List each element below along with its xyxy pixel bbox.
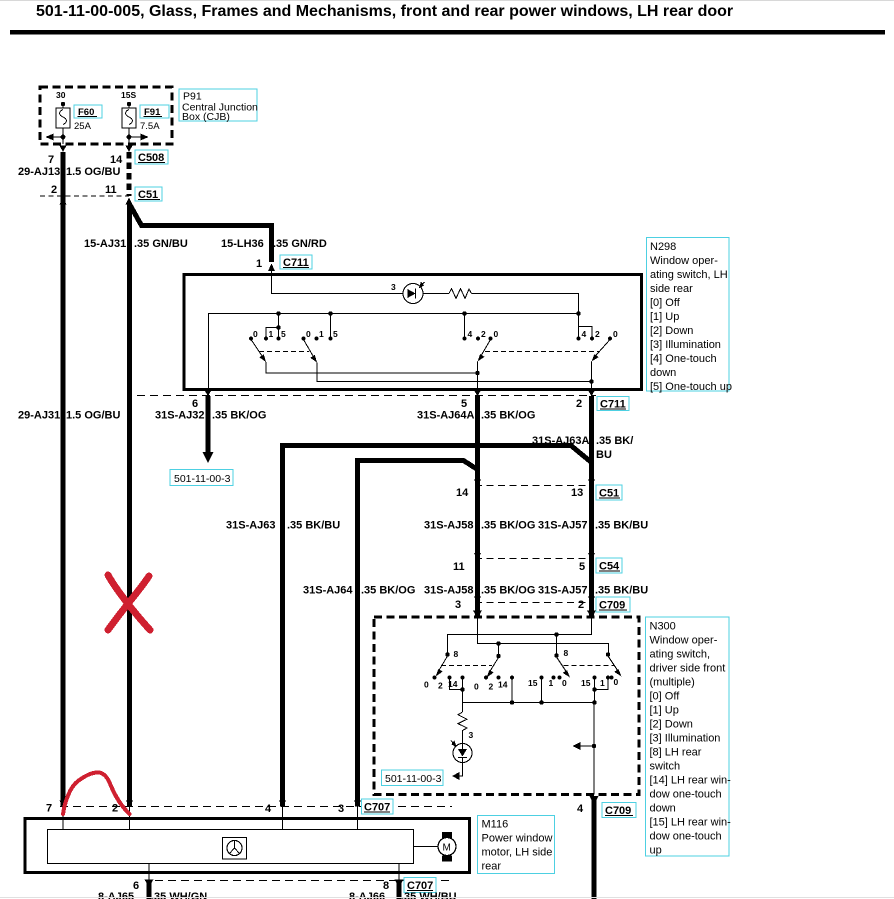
connector C51 arrows pins 14 13	[474, 480, 481, 487]
svg-text:1: 1	[319, 329, 324, 339]
wire 31S-AJ64 elbow branch	[358, 461, 478, 807]
N300 common bus	[463, 700, 597, 704]
svg-text:15S: 15S	[121, 90, 136, 100]
wire 31S-AJ63 elbow branch	[283, 446, 592, 807]
svg-text:3: 3	[469, 730, 474, 740]
fuse F91	[122, 102, 136, 144]
svg-text:1: 1	[549, 678, 554, 688]
connector C707 bottom dashed line	[155, 880, 450, 882]
motor M116 outer box	[25, 819, 470, 873]
svg-text:31S-AJ58: 31S-AJ58	[424, 520, 474, 532]
svg-text:31S-AJ57: 31S-AJ57	[538, 520, 588, 532]
motor symbol M	[414, 832, 457, 862]
connector C54 label box	[596, 558, 622, 573]
N300 switch C pivot 8	[554, 653, 558, 657]
junction box P91 dashed outline	[40, 87, 172, 144]
connector C709 label box bottom	[602, 803, 636, 818]
P91 info box	[179, 89, 258, 123]
wire motor pin 6	[145, 864, 154, 899]
svg-text:2: 2	[438, 681, 443, 691]
N300 linkage dashed right	[564, 665, 616, 667]
svg-text:11: 11	[453, 561, 465, 573]
N300 switch B wire 14 down	[511, 678, 513, 703]
svg-text:0: 0	[494, 329, 499, 339]
connector C508 arrow pin 14	[126, 146, 133, 153]
svg-text:.35 BK/OG: .35 BK/OG	[481, 520, 535, 532]
connector C51 mid dashed line	[475, 485, 593, 487]
N300 switch C wire 15 down	[541, 678, 543, 703]
svg-text:7: 7	[48, 154, 54, 166]
svg-text:Window oper-: Window oper-	[650, 635, 718, 647]
bottom frame line	[0, 897, 894, 899]
N298 switch 4 feed	[579, 314, 593, 339]
svg-text:[0] Off: [0] Off	[650, 297, 681, 309]
N298 linkage right dashed	[485, 351, 599, 353]
wire 31S-AJ32 to ground ref	[203, 396, 214, 463]
svg-text:7: 7	[46, 803, 52, 815]
connector C711 label box top	[280, 255, 312, 269]
N298 switch 3 contacts 4 2 0	[463, 329, 499, 340]
svg-text:dow one-touch: dow one-touch	[650, 831, 722, 843]
svg-text:5: 5	[281, 329, 286, 339]
connector C707 label box bottom	[404, 878, 436, 893]
wire segment F91 to C51 dashed thick	[127, 152, 132, 196]
wire motor pin 8	[395, 864, 404, 899]
top frame line	[0, 0, 894, 2]
svg-text:[3] Illumination: [3] Illumination	[650, 733, 721, 745]
wire 15-AJ31 long vertical	[127, 204, 132, 807]
N298 switch 4 arm	[592, 340, 611, 362]
svg-text:[4] One-touch: [4] One-touch	[650, 353, 717, 365]
svg-text:[1] Up: [1] Up	[650, 311, 679, 323]
svg-text:31S-AJ32: 31S-AJ32	[155, 410, 205, 422]
svg-text:down: down	[650, 803, 676, 815]
svg-text:2: 2	[578, 599, 584, 611]
svg-text:.35 GN/RD: .35 GN/RD	[273, 238, 327, 250]
N298 switch 2 pivot wire	[317, 363, 592, 382]
svg-text:.35 BK/BU: .35 BK/BU	[595, 585, 648, 597]
svg-text:motor, LH side: motor, LH side	[482, 847, 553, 859]
connector C709 dashed line	[475, 602, 593, 604]
svg-text:501-11-00-3: 501-11-00-3	[385, 773, 442, 785]
svg-text:0: 0	[613, 329, 618, 339]
svg-text:13: 13	[571, 487, 583, 499]
N300 lamp output wire to ref arrow	[452, 763, 463, 781]
svg-text:7.5A: 7.5A	[140, 121, 160, 132]
svg-text:ating switch, LH: ating switch, LH	[650, 269, 728, 281]
svg-text:.35 BK/OG: .35 BK/OG	[361, 585, 415, 597]
svg-text:29-AJ13: 29-AJ13	[18, 166, 60, 178]
N298 switch 3 feed	[464, 314, 466, 339]
fuse F91 output junction and feed arrow	[127, 134, 149, 141]
N298 lamp (LED)	[403, 282, 425, 304]
wire resistor to bus	[472, 294, 579, 314]
svg-text:4: 4	[577, 803, 584, 815]
wire bus to pin 6	[208, 314, 210, 390]
svg-text:[14] LH rear win-: [14] LH rear win-	[650, 775, 732, 787]
N300 switch A contact bracket	[450, 678, 465, 703]
svg-text:1.5 OG/BU: 1.5 OG/BU	[66, 166, 120, 178]
N298 switch 2 feed	[330, 314, 332, 339]
fuse F60 designator box	[74, 105, 102, 118]
switch N300 dashed outline	[374, 617, 639, 795]
svg-text:[5] One-touch up: [5] One-touch up	[650, 381, 732, 393]
svg-text:4: 4	[582, 329, 587, 339]
N300 pin3 internal wire	[478, 617, 609, 655]
svg-text:0: 0	[562, 678, 567, 688]
N298 switch 3 pivot wire to pin 5	[477, 362, 479, 390]
svg-text:2: 2	[51, 184, 57, 196]
svg-text:rear: rear	[482, 861, 502, 873]
connector C707 top dashed line	[60, 806, 452, 808]
svg-text:[15] LH rear win-: [15] LH rear win-	[650, 817, 732, 829]
N300 switch A pivot 8	[445, 652, 449, 656]
svg-text:Box (CJB): Box (CJB)	[182, 111, 230, 123]
svg-text:31S-AJ64A: 31S-AJ64A	[417, 410, 475, 422]
svg-text:[8] LH rear: [8] LH rear	[650, 747, 702, 759]
connector C508 arrow pin 7	[60, 146, 67, 153]
svg-text:.35 BK/BU: .35 BK/BU	[287, 520, 340, 532]
svg-text:1.5 OG/BU: 1.5 OG/BU	[66, 410, 120, 422]
N300 switch A arm	[436, 656, 448, 677]
svg-text:[2] Down: [2] Down	[650, 719, 693, 731]
svg-text:6: 6	[192, 398, 198, 410]
connector C51 dashed line	[40, 195, 129, 197]
connector C711 bottom dashed line	[137, 395, 596, 397]
wire N298 pin5 down to C709	[475, 396, 480, 617]
N300 resistor	[458, 703, 467, 734]
svg-text:[0] Off: [0] Off	[650, 691, 681, 703]
svg-text:15: 15	[528, 678, 538, 688]
ref box 501-11-00-3 left	[170, 470, 233, 486]
connector C711 label box bottom	[597, 397, 629, 411]
N300 switch D arm	[608, 656, 622, 677]
N298 switch 2 contacts 0 1 5	[302, 329, 338, 340]
svg-text:up: up	[650, 845, 662, 857]
N298 resistor	[423, 289, 472, 299]
svg-text:5: 5	[333, 329, 338, 339]
svg-text:5: 5	[579, 561, 585, 573]
N298 switch 1 arm	[251, 340, 266, 363]
svg-text:2: 2	[595, 329, 600, 339]
N300 switch B arm	[487, 658, 499, 678]
svg-text:Power window: Power window	[482, 833, 553, 845]
N300 switch C arm	[557, 657, 571, 678]
svg-text:11: 11	[105, 184, 117, 196]
svg-text:14: 14	[110, 154, 123, 166]
svg-text:down: down	[650, 367, 676, 379]
svg-text:3: 3	[455, 599, 461, 611]
svg-text:1: 1	[256, 258, 262, 270]
svg-text:31S-AJ64: 31S-AJ64	[303, 585, 353, 597]
wire branch 15-LH36 elbow to C711 pin 1	[130, 205, 272, 262]
svg-text:8: 8	[564, 648, 569, 658]
N298 switch 3 arm	[478, 340, 491, 362]
svg-text:5: 5	[461, 398, 467, 410]
N298 info box	[647, 238, 732, 394]
svg-text:29-AJ31: 29-AJ31	[18, 410, 60, 422]
svg-text:switch: switch	[650, 761, 681, 773]
N300 switch D contacts 15 1 0	[581, 676, 619, 688]
N298 linkage left dashed	[259, 351, 309, 353]
svg-text:.35 BK/: .35 BK/	[596, 435, 633, 447]
svg-text:N300: N300	[650, 621, 676, 633]
svg-text:2: 2	[112, 803, 118, 815]
N300 switch B contacts 0 2 14	[474, 676, 514, 692]
svg-text:.35 BK/OG: .35 BK/OG	[481, 410, 535, 422]
svg-text:1: 1	[600, 678, 605, 688]
svg-text:0: 0	[253, 329, 258, 339]
svg-text:14: 14	[456, 487, 469, 499]
fuse F91 designator box	[140, 105, 169, 118]
C709 pin4 arrow	[590, 796, 599, 805]
window regulator symbol	[223, 838, 247, 860]
svg-text:N298: N298	[650, 241, 676, 253]
svg-text:.35 BK/OG: .35 BK/OG	[212, 410, 266, 422]
svg-text:15-LH36: 15-LH36	[221, 238, 264, 250]
svg-text:0: 0	[474, 682, 479, 692]
N300 pin2 internal wire	[448, 617, 592, 655]
svg-text:2: 2	[576, 398, 582, 410]
motor M116 inner box	[48, 830, 414, 864]
N300 switch D pivot	[606, 652, 610, 656]
svg-text:driver side front: driver side front	[650, 663, 726, 675]
svg-text:4: 4	[265, 803, 272, 815]
svg-text:Window oper-: Window oper-	[650, 255, 718, 267]
wire N298 pin2 down to C709	[589, 396, 594, 617]
C707 arrows pins 7 2 4 3	[60, 801, 67, 808]
svg-text:31S-AJ58: 31S-AJ58	[424, 585, 474, 597]
connector C709 arrows pins 3 2	[474, 597, 481, 604]
N298 switch 1 pivot wire	[266, 362, 478, 373]
svg-text:.35 GN/BU: .35 GN/BU	[134, 238, 188, 250]
ref box 501-11-00-3 in N300	[382, 770, 444, 786]
svg-text:3: 3	[338, 803, 344, 815]
svg-text:[2] Down: [2] Down	[650, 325, 693, 337]
connector C51 label box	[135, 187, 162, 201]
fuse F60	[56, 102, 70, 144]
N298 internal supply bus	[208, 313, 579, 315]
N300 switch A contacts 0 2 14	[424, 676, 464, 691]
wire C709 pin 4 down	[592, 799, 597, 899]
N300 switch C contacts 15 1 0	[528, 676, 567, 688]
svg-text:BU: BU	[596, 449, 612, 461]
N298 switch 1 contacts 0 1 5	[249, 329, 286, 340]
N300 output wire to C709 pin 4	[593, 703, 595, 795]
svg-text:2: 2	[489, 682, 494, 692]
M116 info box	[478, 816, 555, 874]
svg-text:31S-AJ63: 31S-AJ63	[226, 520, 276, 532]
N300 switch D contact bracket	[592, 678, 608, 703]
svg-text:[1] Up: [1] Up	[650, 705, 679, 717]
svg-text:0: 0	[306, 329, 311, 339]
svg-text:dow one-touch: dow one-touch	[650, 789, 722, 801]
svg-text:.35 BK/BU: .35 BK/BU	[595, 520, 648, 532]
svg-text:2: 2	[481, 329, 486, 339]
svg-text:[3] Illumination: [3] Illumination	[650, 339, 721, 351]
N298 switch 2 arm	[304, 340, 318, 363]
svg-text:25A: 25A	[74, 121, 92, 132]
N298 switch 4 pivot wire to pin 2	[591, 362, 593, 390]
svg-text:0: 0	[424, 680, 429, 690]
svg-text:M: M	[443, 843, 451, 854]
svg-text:8: 8	[454, 649, 459, 659]
connector C51 mid label box	[596, 485, 622, 500]
wires into motor	[62, 807, 64, 830]
wire 29-AJ31 long left vertical	[61, 152, 66, 807]
svg-text:501-11-00-005, Glass, Frames a: 501-11-00-005, Glass, Frames and Mechani…	[36, 3, 733, 20]
connector C707 label box top	[362, 799, 394, 814]
connector C709 label box top	[596, 597, 630, 612]
svg-text:ating switch,: ating switch,	[650, 649, 711, 661]
svg-text:31S-AJ57: 31S-AJ57	[538, 585, 588, 597]
svg-text:side rear: side rear	[650, 283, 693, 295]
svg-text:501-11-00-3: 501-11-00-3	[174, 473, 231, 485]
svg-text:.35 BK/OG: .35 BK/OG	[481, 585, 535, 597]
connector C51 arrows	[60, 198, 67, 205]
N298 pin1 internal wire	[272, 275, 404, 294]
connector C711 pin1 arrow	[268, 264, 275, 272]
svg-text:15-AJ31: 15-AJ31	[84, 238, 126, 250]
N300 linkage dashed left	[441, 665, 492, 667]
connector C54 dashed line	[475, 558, 593, 560]
connector C54 arrows pins 11 5	[474, 553, 481, 560]
svg-text:30: 30	[56, 90, 66, 100]
svg-text:1: 1	[269, 329, 274, 339]
fuse F60 output junction and feed arrow	[46, 134, 66, 141]
svg-text:M116: M116	[482, 819, 509, 831]
svg-text:(multiple): (multiple)	[650, 677, 695, 689]
N298 switch 1 feed	[266, 314, 281, 339]
svg-text:14: 14	[498, 680, 508, 690]
svg-text:4: 4	[468, 329, 473, 339]
switch N298 outline	[184, 275, 642, 390]
red annotation arc	[63, 772, 130, 814]
svg-text:3: 3	[391, 282, 396, 292]
svg-text:0: 0	[614, 677, 619, 687]
N300 entry arrows pins 3 2	[473, 611, 482, 619]
N300 info box	[646, 617, 732, 857]
connector C711 arrows pins 6 5 2	[205, 390, 212, 396]
N300 lamp (LED)	[451, 733, 472, 763]
connector C508 label box	[135, 150, 168, 164]
red annotation X	[108, 575, 150, 630]
N300 switch B pivot	[496, 654, 500, 658]
N300 branch arrow left	[573, 742, 597, 750]
header rule	[10, 30, 885, 35]
N298 switch 4 contacts 4 2 0	[577, 329, 618, 340]
svg-text:15: 15	[581, 678, 591, 688]
